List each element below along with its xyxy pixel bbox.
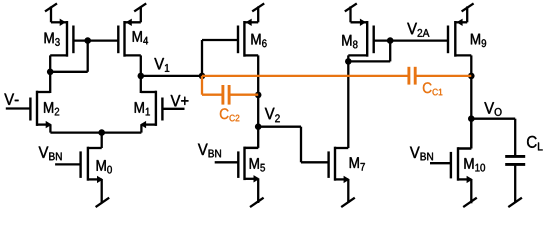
wire V2 to M7 gate [258,126,301,128]
transistor M5 [243,147,245,181]
wire CC2 to M6 drain [230,94,258,96]
wire M0 source down [101,179,103,203]
wire gate bus M8-M9 [374,39,448,41]
transistor M4 [123,21,125,57]
wire gate bus M3-M4 [73,39,118,41]
label M10 [464,158,485,171]
wire VBN to M5 gate [215,161,239,163]
node CC2 junction [255,92,262,99]
wire CL to ground [514,164,516,202]
label M3 [45,33,60,46]
wire CC1 net from V1 [202,75,408,77]
label VO [484,102,501,116]
transistor M8 [366,21,368,57]
wire V+ input [162,108,184,110]
node V2 junction [255,123,262,130]
capacitor CC2 [221,85,224,105]
node M3 drain junction [47,69,54,76]
capacitor CC1 [407,67,410,85]
wire tail bus [50,131,141,133]
node CC1 output junction [468,73,475,80]
wire M8 drain to M7 drain [347,55,349,148]
label CL [527,136,543,151]
label M9 [471,34,486,47]
label V2A [407,23,429,37]
ground VSS below M0 [96,198,110,207]
wire M2 source jog [49,125,51,133]
ground VSS below M5 [250,198,264,207]
power VDD rail above M4 [134,3,146,11]
wire VBN to M10 gate [430,162,451,164]
power VDD rail above M8 [345,3,357,11]
capacitor CL [505,155,525,158]
node M3-M4 gate junction [84,37,91,44]
label M4 [133,31,148,44]
transistor M7 [334,147,336,181]
label M8 [342,35,357,48]
wire V- input [6,107,31,109]
wire M3 gate-drain tie [87,41,89,72]
label M1 [135,102,150,115]
label M2 [44,102,59,115]
wire M10 source down [470,179,472,203]
node tail junction [98,129,105,136]
wire M5 drain bend [245,147,259,149]
node VO junction [468,115,475,122]
label V+ [171,95,189,106]
label VBN middle [198,144,221,158]
ground VSS below CL [508,198,522,207]
transistor M1 [155,91,157,126]
wire VO to CL [471,118,515,120]
power VDD rail above M6 [252,3,264,11]
wire tail to M0 drain [101,133,103,148]
wire M1 source jog [140,125,142,133]
power VDD rail above M3 [45,3,57,11]
wire M6 drain column [257,55,259,147]
label CC2 [220,108,239,121]
transistor M6 [243,21,245,57]
label V- [4,94,18,105]
wire M10 drain bend [458,147,471,149]
label V1 [154,58,169,72]
transistor M3 [66,21,68,57]
ground VSS below M10 [463,198,477,207]
transistor M2 [36,91,38,126]
node V1 branch junction [199,73,206,80]
wire M9 drain column [470,55,472,148]
node V1 junction [138,73,145,80]
wire M7 source down [347,179,349,203]
node M8-M9 gate junction [387,37,394,44]
wire M8 gate-drain tie [389,41,391,62]
label M7 [350,157,365,170]
wire M4 drain to M1 drain [140,55,142,93]
wire V1 node horizontal [141,75,202,77]
ground VSS below M7 [341,198,355,207]
label V2 [265,108,280,122]
wire CC2 branch [201,76,203,95]
transistor M10 [457,147,459,181]
power VDD rail above M9 [462,3,474,11]
wire V1 to M6 gate [201,40,203,76]
label VBN right [410,147,433,161]
wire VO to M10 drain [470,119,472,149]
wire VBN to M0 gate [55,163,81,165]
wire CC1 to M9 drain [416,75,471,77]
label M6 [251,34,266,47]
label CC1 [423,82,442,95]
label M5 [250,158,265,171]
transistor M0 [87,147,89,181]
wire M3 drain to M2 drain [49,55,51,93]
node M8 drain junction [345,58,352,65]
label M0 [97,160,112,173]
label VBN left [39,147,62,161]
transistor M9 [454,21,456,57]
wire M5 source down [257,179,259,203]
